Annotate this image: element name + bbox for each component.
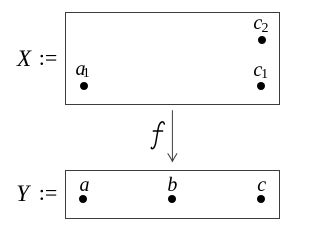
- dot c: [257, 195, 265, 203]
- label b: [167, 175, 177, 195]
- label c2: [253, 13, 262, 33]
- dot c1: [257, 82, 265, 90]
- dot a: [79, 195, 87, 203]
- label c1: [253, 60, 262, 80]
- label f: [146, 116, 170, 154]
- label a: [80, 175, 90, 195]
- label := (for Y): [39, 182, 58, 204]
- label := (for X): [39, 47, 58, 69]
- dot b: [168, 195, 176, 203]
- label X: [17, 47, 31, 70]
- dot c2: [258, 36, 266, 44]
- dot a1: [80, 82, 88, 90]
- label a1: [76, 59, 86, 79]
- box X (top rectangle): [65, 12, 280, 105]
- label c: [257, 175, 266, 195]
- label Y: [16, 182, 29, 205]
- box Y (bottom rectangle): [65, 170, 280, 219]
